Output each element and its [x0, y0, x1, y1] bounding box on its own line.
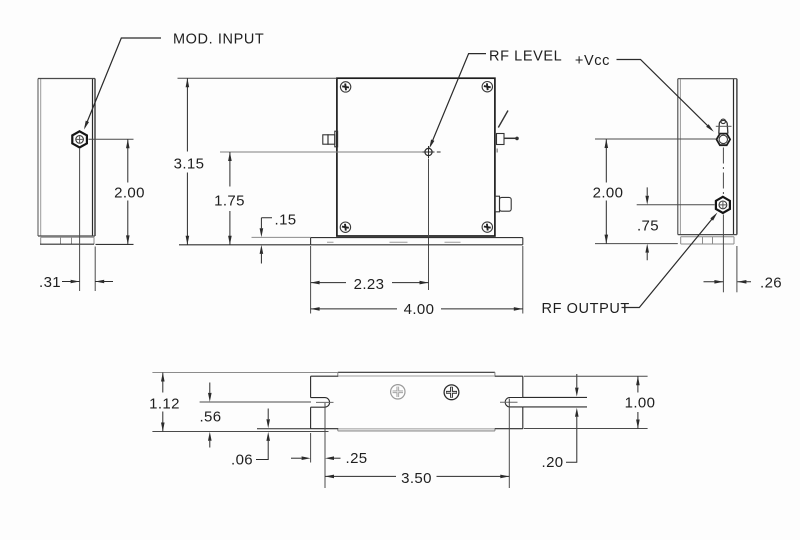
svg-text:.15: .15	[275, 211, 297, 228]
bottom view screw left (light)	[391, 385, 405, 399]
dimension 3.15	[186, 78, 188, 245]
dimension .56	[209, 383, 211, 448]
RF OUTPUT leader	[622, 217, 715, 308]
dimension 2.23	[311, 282, 429, 284]
svg-text:1.75: 1.75	[214, 193, 245, 210]
front view rf output connector	[495, 196, 511, 212]
dimension 2.00 left view	[127, 139, 129, 244]
front view body box	[337, 78, 495, 236]
dimension .15	[261, 218, 272, 264]
rf level centerline horizontal	[220, 151, 425, 153]
extension line slot centerline for .56	[200, 401, 311, 403]
extension line from +Vcc connector	[595, 138, 716, 140]
dimension .25	[291, 457, 341, 459]
dimension .75	[646, 187, 648, 260]
hidden slot dashes in flange	[327, 241, 461, 243]
left mounting slot	[311, 398, 334, 408]
front view mounting flange	[311, 238, 523, 245]
extension lines for 1.12	[152, 373, 337, 432]
front view corner screw top-right	[482, 82, 492, 92]
extension line right edge below	[736, 246, 738, 292]
vertical centerline from rf level cross	[428, 159, 430, 291]
extension line for .15 flange top	[252, 236, 311, 238]
svg-text:.56: .56	[199, 409, 221, 426]
extension lines for .25 and 3.50	[311, 399, 510, 489]
+Vcc feedthrough connector hex nut with solder lug	[716, 119, 732, 145]
rf output connector hex nut	[716, 197, 730, 213]
extension lines below flange	[311, 246, 523, 314]
svg-text:.26: .26	[760, 275, 782, 292]
svg-text:.20: .20	[542, 454, 564, 471]
centerline extension below rf output	[722, 215, 724, 293]
right mounting slot	[500, 398, 523, 407]
bottom view body outline	[338, 372, 495, 431]
svg-text:+Vcc: +Vcc	[575, 53, 610, 69]
svg-text:3.50: 3.50	[401, 470, 432, 487]
svg-text:2.00: 2.00	[114, 185, 145, 202]
rf level adjustment cross	[423, 146, 441, 158]
dimension 1.75	[229, 152, 231, 245]
svg-text:1.00: 1.00	[625, 395, 656, 412]
front view left connector (mod input side)	[323, 131, 338, 147]
svg-text:.31: .31	[39, 274, 61, 291]
extension line flange bottom left view	[96, 243, 134, 245]
svg-text:MOD. INPUT: MOD. INPUT	[173, 32, 264, 48]
dimension 1.12	[162, 373, 164, 432]
svg-text:3.15: 3.15	[174, 155, 205, 172]
dimension .26	[704, 281, 752, 283]
dimension .20	[566, 374, 577, 462]
extension line from rf output connector	[637, 204, 715, 206]
+Vcc leader	[617, 60, 712, 130]
bottom view screw right (dark)	[444, 385, 459, 400]
RF LEVEL leader	[431, 54, 486, 146]
svg-text:2.23: 2.23	[354, 276, 385, 293]
svg-text:RF OUTPUT: RF OUTPUT	[542, 301, 630, 317]
dimension 3.50	[325, 475, 509, 477]
front view +Vcc feedthrough terminal	[497, 111, 516, 153]
svg-text:2.00: 2.00	[593, 185, 624, 202]
left side view body	[38, 79, 95, 237]
dimension 1.00	[637, 376, 639, 428]
front view corner screw bottom-left	[340, 222, 350, 232]
svg-text:4.00: 4.00	[404, 301, 435, 318]
right side view body	[678, 79, 737, 235]
slot edge extension lines for .20	[523, 397, 587, 407]
extension line flange bottom going left	[179, 244, 311, 246]
extension line from mod input connector	[89, 138, 134, 140]
front view corner screw top-left	[340, 82, 350, 92]
extension line flange bottom short for .06	[257, 428, 311, 430]
dimension .31	[62, 281, 113, 283]
extension lines for .31	[80, 148, 96, 291]
dash-dot centerline between connectors	[722, 148, 724, 197]
MOD. INPUT leader	[85, 38, 161, 127]
front view corner screw bottom-right	[482, 222, 492, 232]
svg-text:.75: .75	[637, 218, 659, 235]
bottom view flange outline	[311, 376, 523, 429]
extension line right flange bottom	[595, 243, 678, 245]
mod input connector hex nut	[72, 131, 87, 147]
svg-text:1.12: 1.12	[149, 395, 180, 412]
left side view flange strip	[40, 237, 94, 244]
svg-text:.06: .06	[231, 451, 253, 468]
dimension .06	[256, 409, 268, 460]
extension line top for 3.15	[178, 77, 337, 79]
extension lines for 1.00	[524, 376, 648, 428]
svg-text:.25: .25	[346, 450, 368, 467]
dimension 4.00	[311, 308, 523, 310]
svg-text:RF LEVEL: RF LEVEL	[489, 49, 562, 65]
dimension 2.00 right view	[605, 139, 607, 244]
right side view flange strip	[681, 237, 734, 244]
